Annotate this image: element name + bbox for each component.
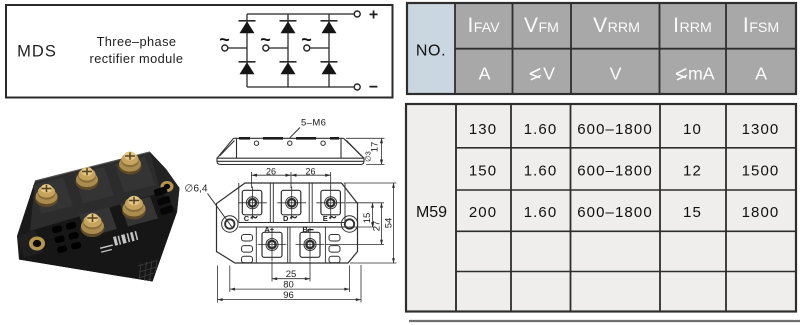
svg-text:D: D: [283, 214, 289, 223]
header cell VRRM: [593, 14, 640, 37]
svg-text:A+: A+: [264, 225, 274, 234]
row 1 data: [469, 121, 780, 138]
diode D5 (bottom, leg 2): [280, 62, 297, 74]
svg-text:12: 12: [683, 163, 702, 180]
svg-text:200: 200: [469, 204, 497, 221]
wire AC phase 3: [310, 47, 330, 49]
side view mounting holes: [254, 141, 325, 145]
mounting hole left (6.4): [222, 216, 238, 232]
terminal + (DC positive): [354, 7, 378, 24]
svg-text:B: B: [302, 225, 308, 234]
svg-text:V: V: [543, 64, 555, 84]
photo module body silhouette: [17, 152, 180, 282]
terminal B square: [296, 228, 325, 261]
svg-text:A: A: [755, 64, 767, 84]
svg-text:54: 54: [384, 218, 395, 229]
terminal A square: [258, 228, 287, 261]
svg-text:1300: 1300: [742, 121, 780, 138]
svg-text:NO.: NO.: [416, 42, 446, 59]
label C~: [244, 214, 257, 223]
photo screw terminal C: [35, 184, 58, 207]
wire top rail: [247, 13, 354, 15]
photo slots right end face: [153, 186, 174, 216]
svg-text:1500: 1500: [742, 163, 780, 180]
header cell IFAV: [467, 14, 500, 37]
side view body outline: [217, 138, 364, 164]
svg-text:1.60: 1.60: [524, 204, 558, 221]
vent slots left group: [242, 235, 253, 263]
svg-text:130: 130: [469, 121, 497, 138]
terminal C square: [238, 187, 267, 220]
svg-text:15: 15: [683, 204, 702, 221]
header unit A: [479, 64, 491, 84]
photo screw terminal B: [122, 196, 146, 220]
terminal AC1 (~): [219, 30, 230, 52]
table body block: [406, 104, 796, 312]
header cell IRRM: [673, 14, 712, 37]
photo module top face: [30, 152, 163, 231]
label B-: [302, 225, 313, 234]
cell M59: [416, 204, 447, 221]
svg-text:1.60: 1.60: [524, 163, 558, 180]
svg-text:27: 27: [372, 221, 383, 232]
terminal - (DC negative): [354, 79, 378, 96]
photo raised terminal blocks: [33, 157, 158, 238]
photo screw terminal A: [81, 213, 105, 237]
wire leg 3: [328, 14, 330, 87]
top view body octagon: [217, 183, 358, 263]
dimension 3 (chamfer): [364, 151, 373, 162]
diode D4 (bottom, leg 1): [239, 62, 256, 74]
photo left mounting ear with eyelet: [17, 230, 45, 258]
svg-text:∅6,4: ∅6,4: [185, 184, 208, 195]
header unit V: [610, 64, 622, 84]
header unit <=mA: [676, 64, 715, 84]
photo label marks: [100, 231, 138, 253]
svg-text:96: 96: [283, 290, 294, 301]
dimension 17 (side view height): [346, 138, 385, 164]
diode D6 (bottom, leg 3): [321, 62, 338, 74]
svg-text:26: 26: [305, 166, 315, 176]
svg-text:M59: M59: [416, 204, 447, 221]
table header block: [407, 3, 796, 94]
photo vent slots front-left: [51, 221, 81, 253]
svg-text:600–1800: 600–1800: [577, 163, 653, 180]
header unit <=V: [530, 64, 555, 84]
terminal AC3 (~): [301, 30, 312, 52]
wire leg 2: [287, 14, 289, 87]
svg-text:80: 80: [283, 279, 294, 290]
wire AC phase 1: [228, 47, 248, 49]
dimension 54 (right, overall): [344, 183, 397, 263]
diode D1 (top, leg 1): [239, 21, 256, 33]
row 2 data: [469, 163, 780, 180]
mounting hole right: [341, 216, 357, 232]
diode D3 (top, leg 3): [321, 21, 338, 33]
svg-text:∅3: ∅3: [364, 151, 373, 162]
dimension 80 (bottom): [230, 266, 350, 293]
dimension 15 27 (right side): [326, 203, 384, 245]
svg-text:MDS: MDS: [17, 42, 57, 60]
photo right mounting eyelet: [161, 181, 174, 192]
svg-text:~: ~: [301, 30, 312, 50]
svg-text:~: ~: [219, 30, 230, 50]
svg-text:600–1800: 600–1800: [577, 204, 653, 221]
svg-text:E: E: [323, 214, 328, 223]
label 5-M6: [290, 118, 327, 138]
svg-text:150: 150: [469, 163, 497, 180]
photo module right end face: [150, 152, 180, 212]
label diameter 6,4: [185, 184, 234, 229]
svg-text:A: A: [479, 64, 491, 84]
wire AC phase 2: [269, 47, 289, 49]
top view internal block lines: [239, 183, 345, 263]
diode D2 (top, leg 2): [280, 21, 297, 33]
svg-text:1.60: 1.60: [524, 121, 558, 138]
dimension 25 (bottom): [272, 262, 310, 282]
row 3 data: [469, 204, 780, 221]
svg-text:10: 10: [683, 121, 702, 138]
svg-text:mA: mA: [688, 64, 715, 84]
photo module front face: [19, 192, 177, 282]
label Three-phase rectifier module: [90, 34, 184, 66]
svg-text:rectifier module: rectifier module: [90, 51, 184, 66]
svg-text:1800: 1800: [742, 204, 780, 221]
header cell NO.: [416, 42, 446, 59]
svg-text:26: 26: [266, 166, 276, 176]
header cell IFSM: [743, 14, 779, 37]
svg-text:+: +: [369, 7, 378, 24]
terminal AC2 (~): [260, 30, 271, 52]
terminal E square: [316, 187, 345, 220]
wire leg 1: [246, 14, 248, 87]
wire bottom rail: [247, 86, 354, 88]
label D~: [283, 214, 297, 223]
vent slots right group: [329, 235, 340, 263]
label MDS: [17, 42, 57, 60]
side view top-face hatch dashes: [239, 137, 339, 140]
svg-text:~: ~: [260, 30, 271, 50]
svg-text:600–1800: 600–1800: [577, 121, 653, 138]
svg-text:C: C: [244, 214, 250, 223]
header cell VFM: [524, 14, 559, 37]
terminal D square: [277, 187, 306, 220]
table underline rule: [409, 320, 800, 322]
label A+: [264, 225, 274, 234]
svg-text:Three–phase: Three–phase: [97, 34, 177, 49]
header unit A (IFSM): [755, 64, 767, 84]
label E~: [323, 214, 336, 223]
photo screw terminal E: [119, 152, 142, 175]
dimension 26 26 (top): [252, 172, 331, 188]
svg-text:−: −: [369, 79, 378, 96]
svg-text:17: 17: [370, 142, 381, 153]
svg-text:5–M6: 5–M6: [301, 118, 326, 129]
photo screw terminal D: [76, 167, 99, 190]
dimension 96 (bottom overall): [218, 265, 362, 303]
panel box: [6, 5, 393, 98]
svg-text:V: V: [610, 64, 622, 84]
